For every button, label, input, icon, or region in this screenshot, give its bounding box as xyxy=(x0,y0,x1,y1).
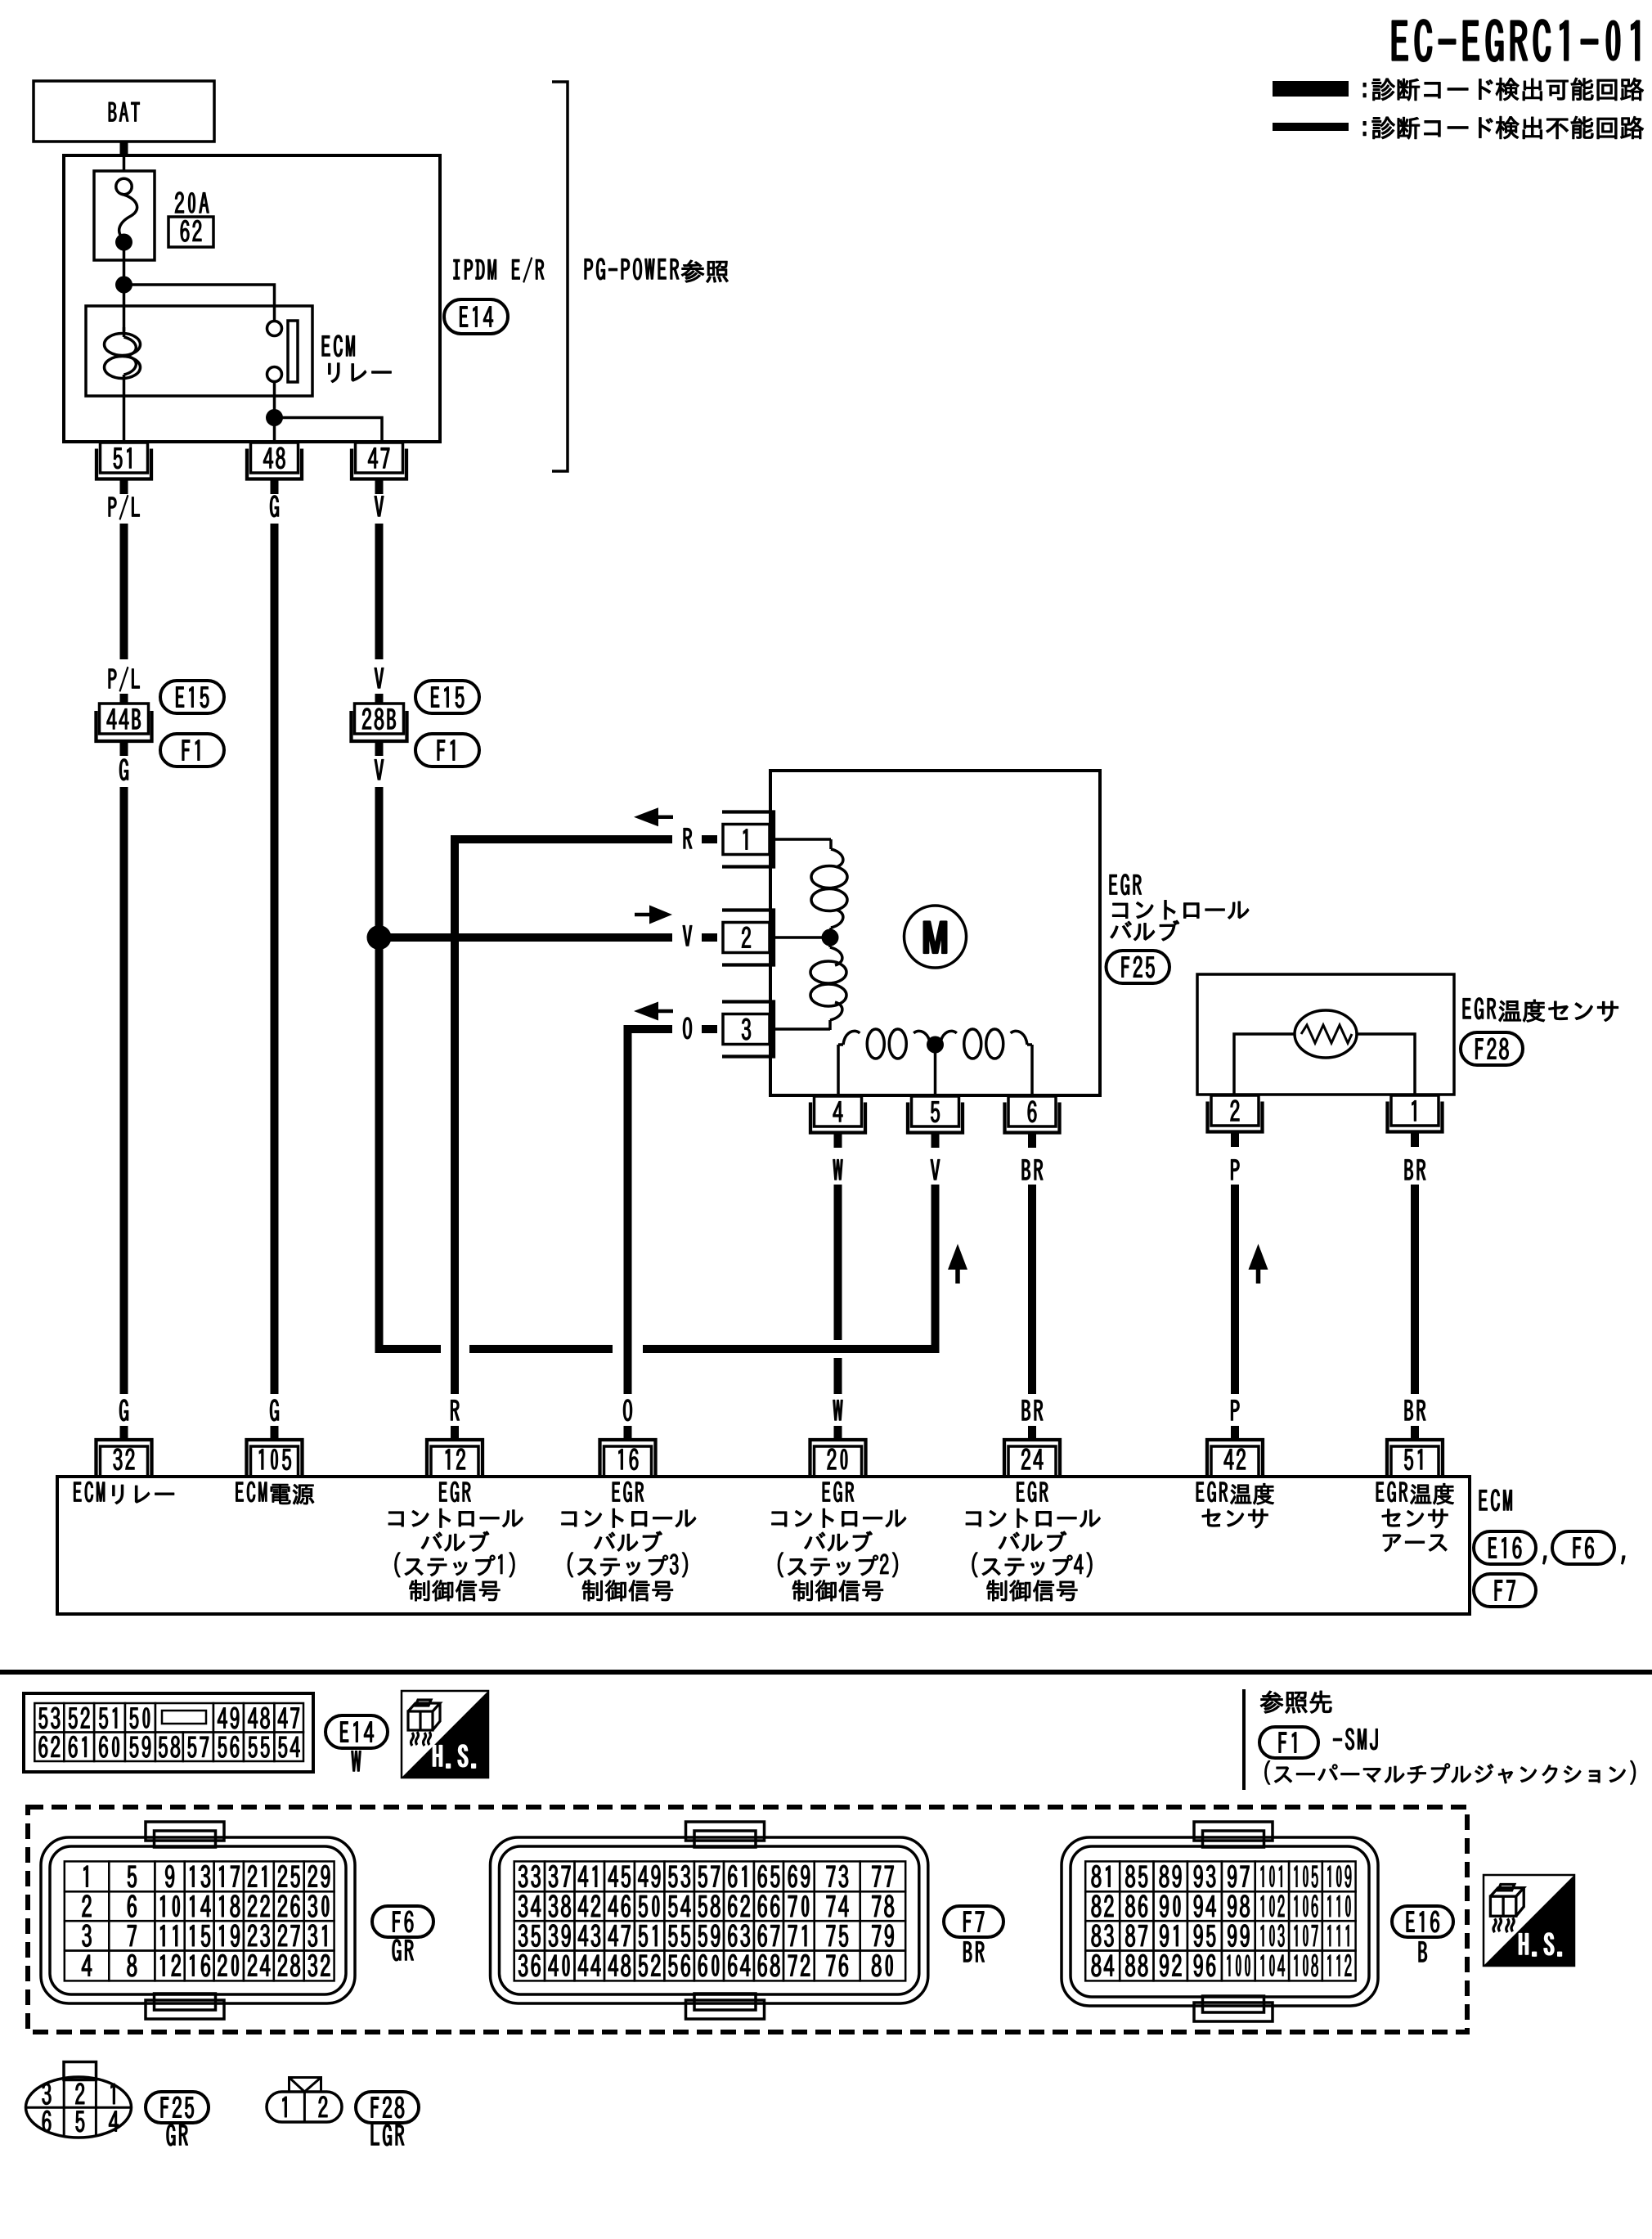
connector F1 oval xyxy=(160,734,224,767)
sensor internal wires xyxy=(1234,1034,1295,1095)
wire stub to pin 1 xyxy=(702,835,717,843)
wire color W xyxy=(833,1159,843,1180)
wire color P/L xyxy=(109,495,140,519)
thermistor xyxy=(1295,1010,1357,1058)
wire color BR xyxy=(1022,1400,1043,1420)
connector color GR xyxy=(393,1940,414,1961)
legend text: diagnostic-code non-detectable circuit xyxy=(1363,116,1644,139)
relay coil xyxy=(123,327,126,337)
wire color P xyxy=(1231,1400,1239,1420)
wire color V xyxy=(375,496,384,516)
wire color O xyxy=(623,1400,631,1421)
terminal 1 xyxy=(723,825,770,855)
junction xyxy=(266,409,283,426)
bracket PG-POWER reference xyxy=(552,82,568,471)
ECM box xyxy=(57,1477,1470,1614)
IPDM E/R box E14 xyxy=(64,155,440,442)
label IPDM E/R xyxy=(454,258,544,282)
label ECM relay xyxy=(322,335,355,357)
valve internal riser pin5 xyxy=(934,1045,937,1095)
terminal 47 xyxy=(356,443,403,473)
connector F6 oval xyxy=(372,1906,433,1937)
wire stub to pin 2 xyxy=(702,933,717,942)
connector F28 face view xyxy=(267,2092,342,2122)
label EGR control valve xyxy=(1110,874,1142,895)
stepper coil B xyxy=(828,937,832,947)
connector F25 face view xyxy=(26,2077,132,2138)
label EGR temperature sensor xyxy=(1196,1481,1274,1504)
wire to terminal 47 xyxy=(275,418,383,443)
label ECM xyxy=(1479,1490,1512,1511)
connector F25 oval xyxy=(146,2092,209,2123)
connector F1 oval xyxy=(1259,1727,1318,1758)
label EGR temperature sensor ground xyxy=(1376,1481,1454,1504)
terminal 2 xyxy=(723,923,770,953)
wire BR to ECM 51 xyxy=(1411,1185,1419,1394)
wire color G xyxy=(119,1400,128,1421)
wire color BR xyxy=(1405,1400,1425,1420)
terminal 5 xyxy=(912,1096,959,1126)
valve internal riser pin4 xyxy=(837,1045,840,1095)
wire P/L xyxy=(120,524,128,659)
wire G to ECM 32 xyxy=(120,787,128,1394)
H.S. harness-side logo xyxy=(1484,1875,1574,1966)
connector color B xyxy=(1419,1941,1427,1962)
connector F7 oval xyxy=(944,1906,1003,1937)
wire V up to valve pin 5 xyxy=(643,1185,936,1349)
wire color BR xyxy=(1022,1159,1043,1180)
connector E16 face view xyxy=(1062,1837,1378,2006)
wire junction to relay contact xyxy=(124,285,275,321)
label ECM power xyxy=(236,1481,314,1504)
connector F7 oval xyxy=(1474,1574,1536,1607)
wire xyxy=(375,694,384,704)
wire color BR xyxy=(1405,1159,1425,1180)
wire color W xyxy=(833,1400,843,1420)
terminal 42 xyxy=(1211,1446,1259,1477)
label reference xyxy=(1260,1691,1331,1713)
terminal 20 xyxy=(815,1446,862,1477)
terminal 32 xyxy=(101,1446,148,1477)
wire stub to pin 3 xyxy=(702,1025,717,1033)
connector color BR xyxy=(963,1941,984,1962)
legend thin-line bar xyxy=(1273,123,1349,131)
connector E15 oval xyxy=(415,681,479,713)
wire color V xyxy=(375,759,384,780)
wire xyxy=(120,694,128,704)
fuse number 62 box xyxy=(168,217,213,247)
connector F1 oval xyxy=(415,734,479,767)
connector F25 oval xyxy=(1107,951,1170,983)
wire stub xyxy=(120,741,128,756)
connector color W xyxy=(352,1751,361,1771)
label -SMJ xyxy=(1333,1729,1377,1750)
signal arrow xyxy=(634,807,658,826)
wire BAT to IPDM xyxy=(120,142,128,157)
connector F28 oval xyxy=(1461,1032,1523,1065)
valve internal wire pin2 xyxy=(772,936,830,939)
terminal 105 xyxy=(251,1446,299,1477)
fuse 20A no.62 xyxy=(94,171,155,260)
junction V xyxy=(367,925,392,950)
stepper coil C xyxy=(838,1043,843,1046)
wire color R xyxy=(451,1400,459,1420)
wire V junction to valve pin 2 xyxy=(379,933,673,942)
ECM connectors dashed box xyxy=(28,1807,1467,2032)
keying slot xyxy=(162,1711,206,1724)
terminal 24 xyxy=(1008,1446,1056,1477)
battery BAT xyxy=(34,81,214,142)
signal arrow xyxy=(1249,1244,1268,1270)
motor M xyxy=(905,906,967,968)
wire to fuse xyxy=(123,157,126,172)
signal arrow xyxy=(635,913,649,917)
wire color V xyxy=(375,668,384,688)
junction pins 1-2 coil xyxy=(822,929,839,946)
EGR control valve box F25 xyxy=(770,771,1100,1095)
terminal 2 xyxy=(1211,1095,1259,1126)
wire G to ECM 105 xyxy=(271,524,279,1394)
wire P to ECM 42 xyxy=(1231,1185,1239,1394)
EGR temperature sensor box F28 xyxy=(1197,974,1454,1095)
connector color LGR xyxy=(371,2124,404,2146)
terminal 12 xyxy=(431,1446,478,1477)
legend thick-line bar xyxy=(1273,81,1349,97)
label EGR control valve step4 signal xyxy=(1017,1481,1048,1502)
connector E14 pin grid xyxy=(24,1693,313,1772)
wire O valve pin3 to ECM 16 xyxy=(628,1029,673,1394)
label EGR control valve step2 signal xyxy=(823,1481,854,1502)
wire V xyxy=(375,524,384,659)
connector color GR xyxy=(167,2124,188,2146)
reference divider xyxy=(1242,1689,1246,1790)
fuse rating 20A xyxy=(175,192,209,213)
connector F7 face view xyxy=(491,1837,928,2003)
junction coils C-D xyxy=(927,1036,944,1054)
separator line xyxy=(0,1670,1652,1675)
wire color V xyxy=(931,1159,940,1180)
label EGR control valve step1 signal xyxy=(439,1481,470,1502)
label super multiple junction xyxy=(1265,1760,1636,1784)
terminal 48 xyxy=(251,443,299,473)
connector terminal 44B xyxy=(100,704,149,734)
label EGR temperature sensor xyxy=(1463,998,1618,1023)
terminal 51 xyxy=(1391,1446,1439,1477)
wire V down to junction xyxy=(375,787,384,937)
relay contact xyxy=(267,321,282,336)
label ECM relay xyxy=(74,1481,173,1504)
connector F6 face view xyxy=(41,1837,355,2003)
signal arrow xyxy=(948,1244,967,1270)
wire color G xyxy=(270,1400,278,1421)
wire color R xyxy=(684,828,692,848)
connector E14 oval xyxy=(325,1715,388,1748)
wire contact to terminals xyxy=(273,382,276,443)
signal arrow xyxy=(634,1002,658,1021)
wire color P/L xyxy=(109,667,140,691)
wire fuse to relay xyxy=(123,242,126,331)
stepper coil A xyxy=(829,839,833,849)
terminal 6 xyxy=(1008,1096,1056,1126)
wire W to ECM 20 xyxy=(834,1185,842,1340)
title EC-EGRC1-01 xyxy=(1393,20,1640,61)
wire V junction down xyxy=(379,937,442,1349)
connector F6 oval xyxy=(1552,1531,1614,1564)
stepper coil D xyxy=(936,1043,940,1046)
terminal 51 xyxy=(101,443,148,473)
terminal 4 xyxy=(815,1096,862,1126)
terminal 3 xyxy=(723,1014,770,1045)
connector E15 oval xyxy=(160,681,224,713)
wire color V xyxy=(683,925,692,946)
connector E14 oval xyxy=(444,299,508,334)
junction xyxy=(115,277,132,294)
terminal 1 xyxy=(1391,1095,1439,1126)
label PG-POWER reference xyxy=(585,259,728,283)
wire V horizontal run to pin 5 xyxy=(469,1345,613,1353)
relay ECM-relay box xyxy=(86,306,312,396)
legend text: diagnostic-code detectable circuit xyxy=(1363,78,1644,101)
label EGR control valve step3 signal xyxy=(613,1481,644,1502)
connector E16 oval xyxy=(1474,1531,1536,1564)
terminal 16 xyxy=(604,1446,652,1477)
H.S. harness-side logo xyxy=(402,1691,488,1778)
valve internal wire pin1 xyxy=(772,838,831,841)
wire R valve pin1 to ECM 12 xyxy=(455,839,672,1394)
wire color G xyxy=(119,759,128,780)
connector E16 oval xyxy=(1392,1906,1453,1937)
connector F28 oval xyxy=(356,2092,419,2123)
connector terminal 28B xyxy=(355,704,404,734)
wire BR to ECM 24 xyxy=(1028,1185,1036,1394)
valve internal riser pin6 xyxy=(1030,1045,1034,1095)
wire color G xyxy=(270,496,278,517)
valve internal wire pin3 xyxy=(772,1027,830,1031)
wire color O xyxy=(683,1018,691,1039)
wire color P xyxy=(1231,1159,1239,1180)
wire stub xyxy=(375,741,384,756)
